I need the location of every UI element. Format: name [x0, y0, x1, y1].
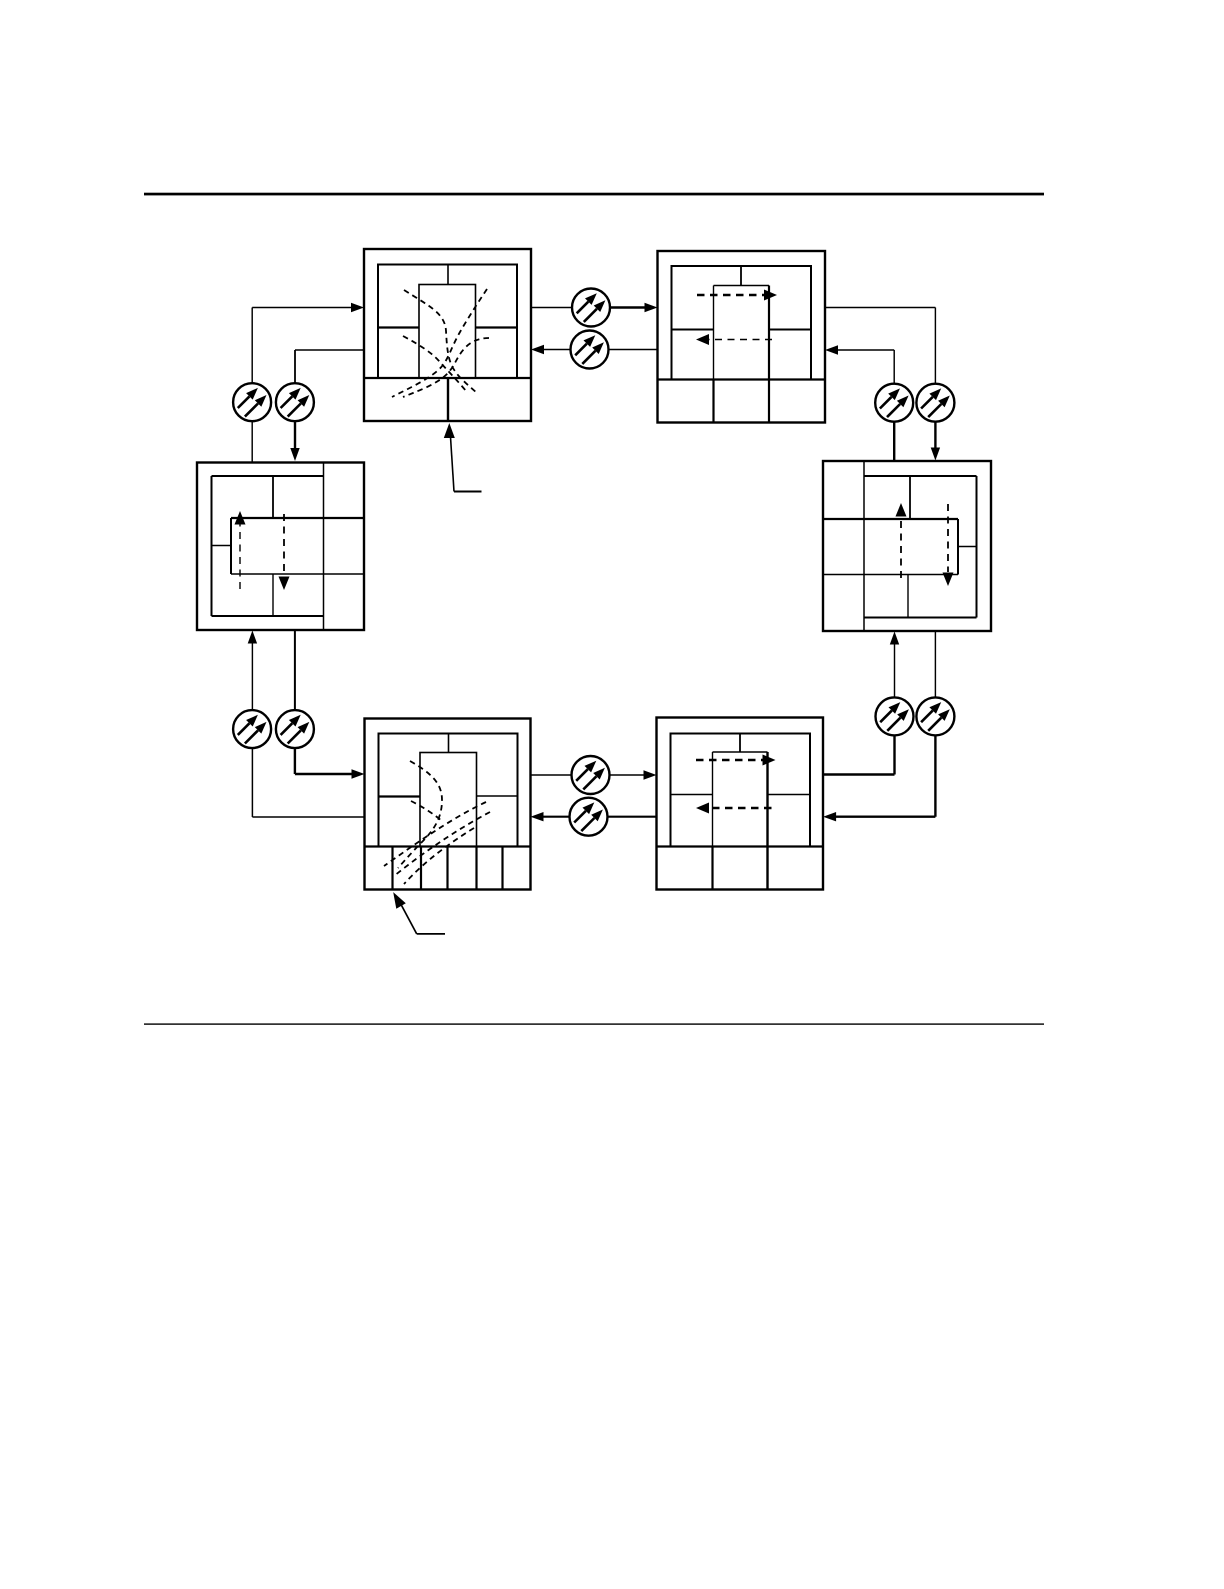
optical transmitter on D to G wire [876, 697, 914, 735]
node E fabric dashed diagonal 3 [404, 828, 474, 884]
optical transmitter on F to A wire [233, 383, 271, 421]
node A shelf divider [447, 265, 449, 285]
node A fabric dashed path NW-S-SE [404, 290, 477, 393]
optical transmitter on B to A wire [571, 331, 609, 369]
node A inner shelf [378, 265, 517, 379]
node F outer shelf [197, 463, 364, 631]
node G left column [863, 461, 865, 631]
node G shelf divider lower [907, 575, 909, 618]
wire G to B (north-east corner) [893, 403, 895, 461]
wire A to F (west span, with transmitter) [295, 349, 364, 351]
node F tab [212, 545, 232, 547]
node G shelf divider upper [909, 476, 911, 519]
node E switch module [420, 753, 477, 847]
node F shelf divider upper [272, 476, 274, 518]
node D shelf divider [739, 734, 741, 753]
wire E to F (south-west corner) [252, 816, 364, 818]
wire G to D (south-east corner) [934, 631, 936, 716]
node E fabric dashed entry strand [411, 801, 443, 822]
node E mid divider right [477, 795, 518, 797]
node F add-drop module [231, 517, 364, 519]
node G inner shelf [864, 475, 977, 477]
node G tab [958, 546, 977, 548]
node A mid divider right [476, 326, 518, 328]
node B mid divider right [769, 329, 811, 331]
node E fabric dashed diagonal 1 [384, 802, 486, 866]
node A callout leader [444, 423, 455, 438]
node E tributary row [365, 845, 531, 847]
node E fabric dashed diagonal 2 [394, 812, 490, 876]
node F inner shelf [212, 475, 324, 477]
node E shelf divider [448, 734, 450, 753]
node E outer shelf [365, 719, 531, 890]
optical transmitter on G to D wire [916, 697, 954, 735]
node A switch module [419, 285, 476, 379]
node B pass-through west dashed arrow [708, 339, 772, 341]
node D outer shelf [657, 718, 824, 890]
wire D to E (south span) [544, 816, 657, 818]
node B pass-through east dashed arrow [697, 294, 764, 296]
node B mid divider left [672, 329, 714, 331]
node G add dashed arrow (up) [900, 520, 902, 579]
node A outer shelf [364, 249, 531, 421]
node B inner shelf [672, 266, 812, 380]
node D inner shelf [671, 734, 811, 847]
node G outer shelf [823, 461, 991, 631]
node B outer shelf [658, 251, 826, 423]
node B bottom row [658, 378, 826, 380]
optical transmitter on E to D wire [572, 756, 610, 794]
node F drop dashed arrow (down) [283, 514, 285, 576]
optical transmitter on A to F wire [276, 383, 314, 421]
node F right column [323, 463, 325, 631]
optical transmitter on F to E wire [276, 710, 314, 748]
optical transmitter on E to F wire [233, 710, 271, 748]
node E tributary divider x=447.5 [446, 847, 448, 890]
node A bottom row [364, 377, 531, 379]
wire F to A (west span, with transmitter) [251, 308, 253, 463]
wire E to D (south span) [531, 774, 644, 776]
node A fabric dashed path NE-SW [392, 289, 487, 397]
node A fabric dashed path E-SW [403, 338, 489, 397]
node G drop dashed arrow (down) [947, 504, 949, 572]
optical transmitter on A to B wire [572, 289, 610, 327]
node E tributary divider x=502.5 [501, 847, 503, 890]
wire A to B (north span) [531, 307, 591, 309]
wire F to E (south-west corner) [294, 630, 296, 729]
node E tributary divider x=476.5 [475, 847, 477, 890]
node B through module [714, 285, 770, 287]
node D pass-through east dashed arrow [696, 759, 763, 761]
node E tributary divider x=392.5 [391, 847, 393, 890]
wire D to G (south-east corner) [823, 773, 894, 775]
optical transmitter on D to E wire [570, 798, 608, 836]
node E inner shelf [379, 734, 518, 847]
optical transmitter on B to G wire [916, 384, 954, 422]
node F shelf divider lower [272, 574, 274, 616]
node E fabric dashed hook path [398, 761, 442, 868]
node G add-drop module [823, 518, 958, 520]
node A fabric dashed path W-SE [403, 336, 466, 391]
node A mid divider left [378, 326, 419, 328]
node E mid divider left [379, 795, 421, 797]
node D through module [713, 751, 768, 753]
node F add dashed arrow (up) [239, 524, 241, 589]
node D mid divider left [671, 794, 713, 796]
node E tributary divider x=421 [420, 847, 422, 890]
node E callout leader [393, 892, 406, 909]
header rule [144, 193, 1044, 196]
node D bottom row [657, 845, 824, 847]
optical transmitter on G to B wire [875, 384, 913, 422]
node D mid divider right [768, 794, 811, 796]
node B shelf divider [740, 266, 742, 286]
wire B to G (north-east corner) [825, 307, 935, 309]
footer rule [144, 1023, 1044, 1024]
node D pass-through west dashed arrow [709, 807, 772, 809]
wire B to A (north span) [590, 349, 658, 351]
